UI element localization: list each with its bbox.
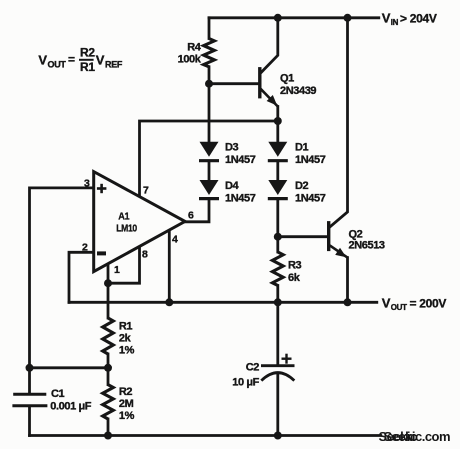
svg-text:100k: 100k bbox=[178, 54, 202, 66]
svg-text:V: V bbox=[38, 53, 47, 68]
svg-text:1: 1 bbox=[114, 264, 120, 276]
svg-text:V: V bbox=[382, 296, 391, 311]
svg-text:> 204V: > 204V bbox=[400, 12, 437, 26]
svg-text:Q1: Q1 bbox=[280, 72, 294, 84]
svg-text:4: 4 bbox=[172, 234, 178, 246]
svg-text:R3: R3 bbox=[288, 259, 302, 271]
svg-text:R1: R1 bbox=[119, 321, 133, 333]
svg-text:R1: R1 bbox=[80, 60, 95, 74]
svg-text:D1: D1 bbox=[295, 142, 309, 154]
svg-text:1%: 1% bbox=[119, 345, 135, 357]
svg-text:A1: A1 bbox=[118, 210, 129, 222]
svg-text:0.001 μF: 0.001 μF bbox=[50, 401, 92, 413]
svg-text:6: 6 bbox=[188, 209, 194, 221]
svg-text:C2: C2 bbox=[246, 361, 260, 373]
svg-text:LM10: LM10 bbox=[116, 223, 137, 235]
svg-text:=: = bbox=[68, 53, 75, 67]
svg-text:1N457: 1N457 bbox=[295, 154, 326, 166]
svg-text:1N457: 1N457 bbox=[295, 192, 326, 204]
svg-text:R4: R4 bbox=[187, 42, 202, 54]
svg-text:V: V bbox=[96, 53, 105, 68]
svg-text:D3: D3 bbox=[225, 142, 239, 154]
svg-text:OUT: OUT bbox=[391, 303, 407, 312]
svg-text:2M: 2M bbox=[119, 398, 134, 410]
svg-text:2N6513: 2N6513 bbox=[349, 240, 385, 252]
svg-text:8: 8 bbox=[142, 249, 148, 261]
svg-text:2: 2 bbox=[82, 241, 88, 253]
svg-text:1N457: 1N457 bbox=[225, 154, 256, 166]
svg-text:2k: 2k bbox=[119, 333, 132, 345]
svg-text:2N3439: 2N3439 bbox=[280, 85, 316, 97]
svg-text:Seekic: Seekic bbox=[379, 429, 417, 444]
svg-text:REF: REF bbox=[105, 59, 123, 69]
svg-text:1N457: 1N457 bbox=[225, 192, 256, 204]
svg-text:V: V bbox=[382, 11, 391, 26]
svg-text:6k: 6k bbox=[288, 272, 301, 284]
svg-text:3: 3 bbox=[84, 178, 90, 190]
svg-text:= 200V: = 200V bbox=[410, 297, 447, 311]
svg-text:C1: C1 bbox=[51, 388, 65, 400]
svg-text:R2: R2 bbox=[80, 45, 95, 59]
svg-text:D2: D2 bbox=[295, 180, 309, 192]
svg-text:R2: R2 bbox=[119, 386, 133, 398]
svg-text:D4: D4 bbox=[225, 180, 240, 192]
svg-text:OUT: OUT bbox=[48, 59, 67, 69]
svg-text:IN: IN bbox=[391, 18, 399, 27]
svg-text:10 μF: 10 μF bbox=[232, 377, 259, 389]
svg-text:1%: 1% bbox=[119, 410, 135, 422]
svg-text:7: 7 bbox=[143, 184, 149, 196]
